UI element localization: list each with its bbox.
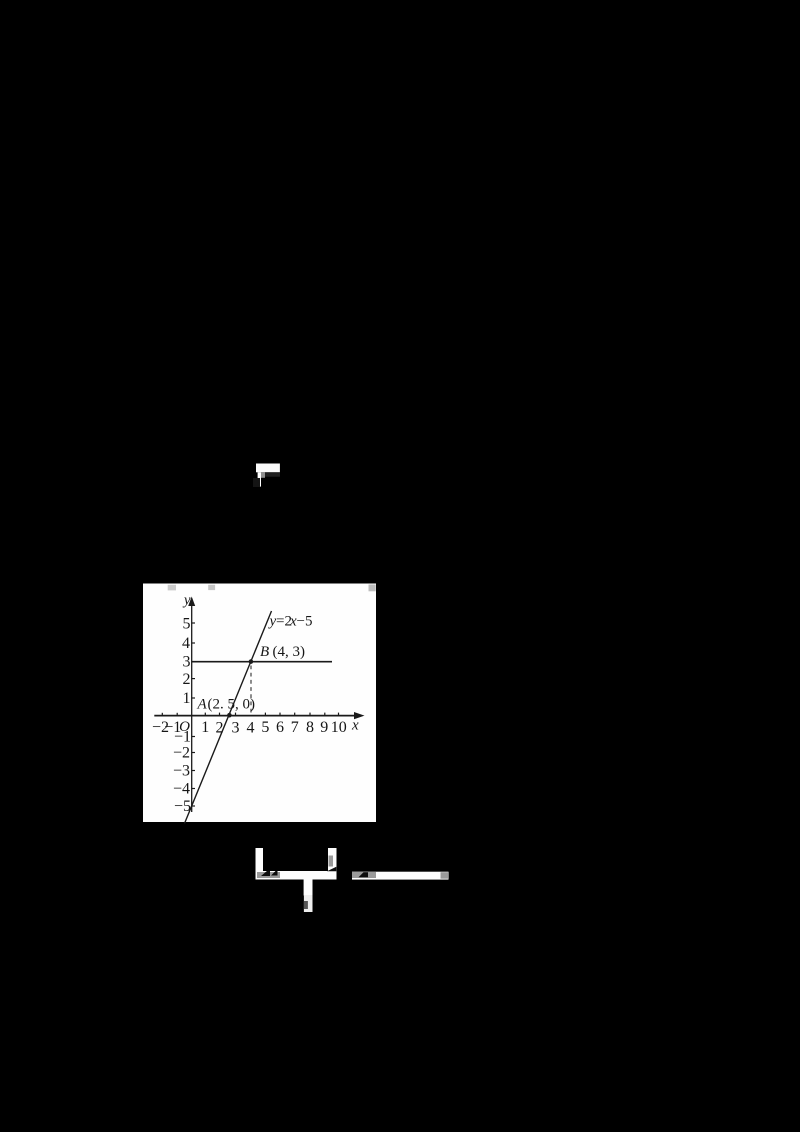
x-axis tick 10 [338,713,340,716]
y-axis tick 4 [192,642,195,644]
svg-text:3: 3 [232,720,240,737]
svg-text:x: x [351,718,359,734]
svg-text:10: 10 [331,719,347,736]
point A dot [227,713,232,718]
white-out bracket mark: left vertical bar [256,848,264,880]
gray smudge tab 3 at panel top-right corner [369,585,376,592]
x-axis [154,715,357,717]
svg-text:(2. 5, 0): (2. 5, 0) [208,697,256,713]
white-out bar mark: black chevron [359,872,369,877]
horizontal line y=3 [192,661,332,663]
svg-text:y: y [182,593,191,609]
svg-text:−4: −4 [173,781,190,798]
white-out bracket mark: gray patch left [257,872,280,878]
white-out bracket mark: black blob right [327,867,336,872]
svg-text:B: B [260,644,269,660]
x-axis tick 8 [309,713,311,716]
svg-text:5: 5 [261,719,269,736]
white-out flag mark (upper) [253,464,280,488]
svg-text:−3: −3 [173,763,190,780]
svg-text:9: 9 [320,719,328,736]
svg-text:A: A [197,697,208,713]
x-axis tick 5 [264,713,266,716]
x-axis tick 9 [324,713,326,716]
y-axis [191,599,193,812]
svg-text:(4, 3): (4, 3) [273,644,306,660]
dashed drop line x=4 [250,666,252,715]
y-axis tick -3 [192,770,195,772]
y-axis tick -4 [192,788,195,790]
svg-text:1: 1 [183,690,191,707]
svg-text:6: 6 [276,719,284,736]
white-out bracket mark: horizontal bar [256,871,337,880]
white-out bracket mark: descending stem [304,879,313,896]
svg-text:2: 2 [183,671,191,688]
svg-text:−2: −2 [173,745,190,762]
white-out bar mark (right) [352,872,449,880]
svg-text:1: 1 [201,719,209,736]
y-axis tick -1 [192,736,195,738]
white-out bar mark: gray right tip [441,872,449,879]
y-axis tick -5 [192,805,195,807]
gray smudge tab 2 on panel top edge [208,585,215,590]
svg-text:4: 4 [182,635,190,652]
y-axis tick 5 [192,622,195,624]
point B dot [249,659,254,664]
y-axis tick 1 [192,697,195,699]
line y=2x-5 [185,611,272,824]
x-axis tick -2 [161,713,163,716]
svg-text:−1: −1 [164,719,181,736]
svg-text:−5: −5 [297,614,313,630]
gray smudge tab 1 on panel top edge [168,585,176,591]
svg-text:2: 2 [216,720,224,737]
svg-text:3: 3 [183,654,191,671]
y-axis tick 2 [192,678,195,680]
x-axis tick 3 [235,713,237,716]
x-axis tick 6 [279,713,281,716]
white-out bracket mark: stem lower (lighter) [304,895,313,912]
x-axis tick 1 [204,713,206,716]
white-out bracket mark: gray patch right [329,856,334,867]
svg-text:4: 4 [247,720,255,737]
x-axis arrowhead [354,712,365,719]
svg-text:8: 8 [306,719,314,736]
y-axis tick -2 [192,752,195,754]
figure white panel [143,584,376,823]
white-out bracket mark: black blob left [261,871,278,877]
y-axis arrowhead [188,597,195,607]
x-axis tick 7 [294,713,296,716]
white-out bracket mark: stem gray speck [304,901,308,909]
svg-text:5: 5 [183,615,191,632]
svg-text:7: 7 [291,719,299,736]
white-out bracket mark: right vertical bar [328,848,337,872]
white-out bar mark: gray left portion [352,872,376,878]
x-axis tick -1 [176,713,178,716]
x-axis tick 2 [219,713,221,716]
